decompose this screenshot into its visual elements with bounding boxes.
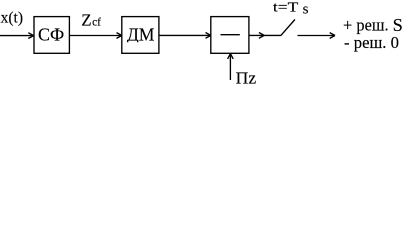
block U3: threshold comparator: [211, 17, 249, 54]
svg-text:СФ: СФ: [38, 25, 64, 45]
wire: input line into matched filter: [0, 35, 33, 37]
svg-text:- реш. 0: - реш. 0: [344, 33, 399, 52]
svg-text:t=T: t=T: [273, 0, 299, 15]
svg-text:S: S: [393, 15, 402, 35]
svg-text:x(t): x(t): [1, 10, 23, 27]
svg-text:Z: Z: [81, 10, 91, 29]
svg-text:Пz: Пz: [236, 69, 257, 87]
svg-text:ДМ: ДМ: [127, 25, 154, 45]
svg-text:cf: cf: [92, 17, 101, 29]
threshold dash symbol: [221, 34, 240, 36]
wire: СФ output to ДМ input: [69, 35, 121, 37]
block U2: demodulator ДМ: [122, 17, 159, 54]
wire: threshold output to switch: [249, 34, 281, 36]
wire: threshold reference input Пz (vertical arrow): [229, 54, 231, 80]
block U1: matched filter СФ: [34, 17, 69, 54]
svg-text:s: s: [303, 2, 309, 18]
wire: switch output arrow to decision: [298, 35, 335, 37]
switch SW1 blade (open): [281, 20, 295, 36]
wire: ДМ output to threshold device: [159, 34, 211, 36]
